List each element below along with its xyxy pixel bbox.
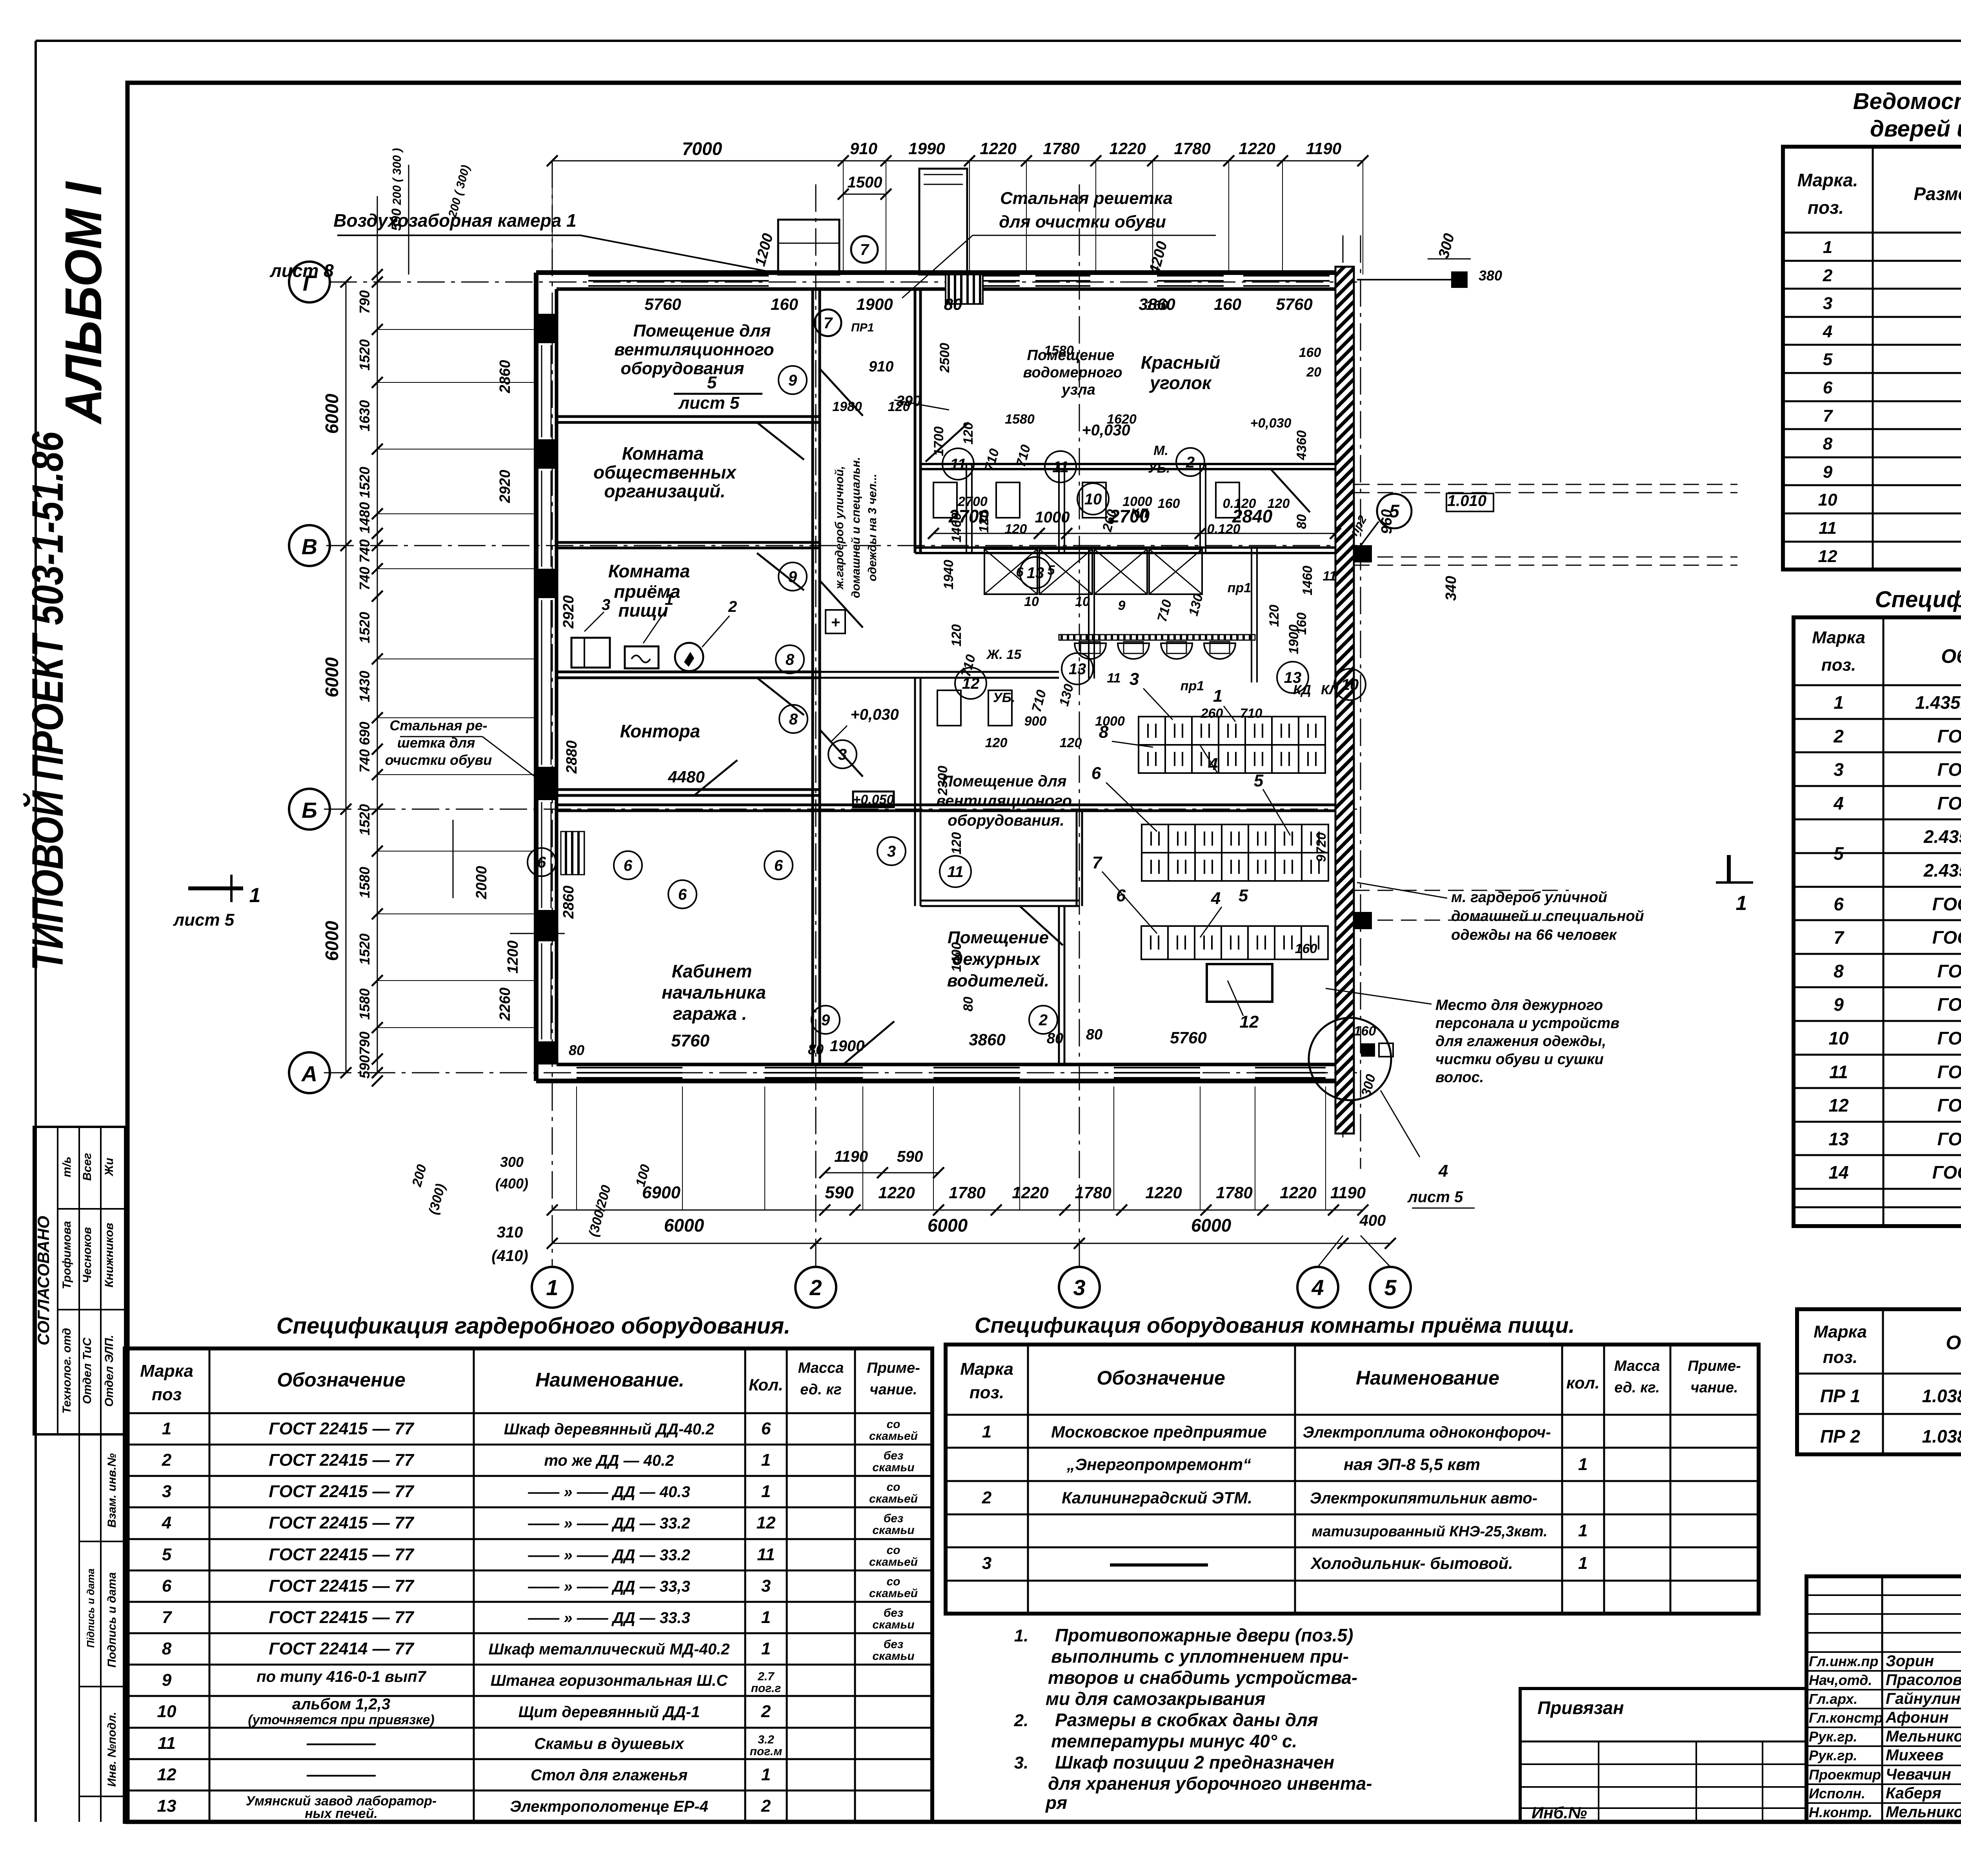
svg-text:ж.гардероб уличной,: ж.гардероб уличной, — [833, 466, 846, 590]
svg-text:790: 790 — [357, 290, 373, 314]
svg-text:+0,030: +0,030 — [850, 706, 899, 723]
svg-text:1220: 1220 — [1145, 1183, 1182, 1202]
svg-text:—— » —— ДД — 33.2: —— » —— ДД — 33.2 — [528, 1515, 690, 1532]
svg-text:+0,050: +0,050 — [853, 792, 894, 807]
svg-text:6: 6 — [761, 1419, 771, 1438]
svg-text:1: 1 — [249, 884, 261, 907]
svg-text:дверей и ворот: дверей и ворот — [1870, 116, 1961, 142]
svg-text:1940: 1940 — [941, 560, 956, 590]
svg-text:1700: 1700 — [931, 426, 946, 456]
svg-text:ГОСТ 6629 — 74: ГОСТ 6629 — 74 — [1937, 961, 1961, 981]
svg-text:6000: 6000 — [664, 1215, 704, 1236]
svg-text:Шкаф деревянный ДД-40.2: Шкаф деревянный ДД-40.2 — [504, 1421, 714, 1438]
svg-text:без: без — [884, 1449, 904, 1462]
svg-text:—— » —— ДД — 33.2: —— » —— ДД — 33.2 — [528, 1547, 690, 1564]
svg-text:1: 1 — [1736, 892, 1747, 915]
svg-text:со: со — [886, 1481, 900, 1494]
svg-text:5: 5 — [1384, 1275, 1397, 1300]
svg-text:2880: 2880 — [564, 741, 580, 774]
svg-text:910: 910 — [850, 139, 877, 158]
svg-text:80: 80 — [961, 997, 976, 1012]
svg-text:Отдел ТиС: Отдел ТиС — [81, 1337, 94, 1404]
svg-text:Штанга горизонтальная Ш.С: Штанга горизонтальная Ш.С — [491, 1672, 728, 1689]
grid circle 5 — [1370, 1267, 1411, 1308]
svg-text:————: ———— — [306, 1765, 376, 1784]
svg-text:скамьи: скамьи — [872, 1461, 914, 1474]
svg-text:Шкаф металлический МД-40.2: Шкаф металлический МД-40.2 — [489, 1641, 730, 1658]
svg-text:13: 13 — [157, 1796, 176, 1816]
sheet outer border left line — [35, 41, 37, 1822]
svg-text:5: 5 — [1823, 350, 1833, 369]
svg-text:+0,030: +0,030 — [1250, 416, 1292, 431]
svg-text:+0,030: +0,030 — [1082, 422, 1130, 439]
axis A line — [324, 1072, 1357, 1074]
svg-text:2: 2 — [761, 1702, 771, 1721]
svg-text:9: 9 — [1834, 994, 1844, 1015]
svg-text:+: + — [831, 614, 840, 631]
svg-text:по типу 416-0-1 вып7: по типу 416-0-1 вып7 — [256, 1668, 427, 1685]
svg-text:Электрополотенце ЕР-4: Электрополотенце ЕР-4 — [510, 1798, 708, 1815]
axis 1 line — [552, 161, 553, 1267]
svg-text:7: 7 — [1092, 853, 1103, 872]
wall between priem pischi and kontora — [557, 671, 820, 673]
position circle 13 — [1277, 662, 1308, 693]
svg-text:3: 3 — [1834, 759, 1844, 780]
svg-text:10: 10 — [1084, 491, 1102, 508]
position circle 10 — [1334, 669, 1366, 700]
svg-text:ПР 1: ПР 1 — [1820, 1386, 1860, 1406]
svg-text:3: 3 — [887, 843, 896, 860]
svg-text:11: 11 — [1819, 519, 1837, 538]
svg-text:Ж. 15: Ж. 15 — [986, 647, 1022, 662]
svg-text:Спецификация гардеробного об: Спецификация гардеробного оборудования. — [277, 1313, 791, 1339]
position circle 8 — [779, 705, 808, 733]
svg-text:чание.: чание. — [870, 1381, 917, 1398]
svg-text:пр1: пр1 — [1181, 679, 1204, 693]
svg-text:Размер проёма в кладке.: Размер проёма в кладке. — [1914, 184, 1961, 204]
table: specifikaciya peremychek — [1797, 1309, 1961, 1454]
svg-text:ми для самозакрывания: ми для самозакрывания — [1046, 1689, 1266, 1709]
svg-text:Спецификация оборудования ко: Спецификация оборудования комнаты приёма… — [975, 1313, 1575, 1337]
svg-text:20: 20 — [1306, 365, 1321, 380]
svg-text:1190: 1190 — [834, 1148, 868, 1165]
svg-text:лист 5: лист 5 — [173, 910, 235, 930]
svg-text:2: 2 — [728, 598, 737, 615]
svg-text:1: 1 — [1578, 1455, 1588, 1474]
left dim vertical line 1 (6000s) — [346, 282, 347, 1073]
svg-text:3: 3 — [162, 1482, 171, 1501]
svg-text:2: 2 — [809, 1275, 822, 1300]
svg-text:8: 8 — [1834, 961, 1844, 981]
axis 3 line — [1079, 184, 1080, 1267]
svg-text:80: 80 — [1294, 514, 1309, 529]
svg-text:6000: 6000 — [322, 393, 342, 434]
svg-text:3: 3 — [838, 746, 847, 763]
svg-text:поз.: поз. — [1821, 655, 1856, 675]
svg-text:ПР 2: ПР 2 — [1820, 1426, 1861, 1447]
svg-text:4: 4 — [1311, 1275, 1324, 1300]
svg-text:организаций.: организаций. — [604, 481, 725, 501]
svg-text:1580: 1580 — [1044, 343, 1074, 358]
svg-text:80: 80 — [944, 295, 962, 313]
title block (main stamp) — [1806, 1576, 1961, 1822]
svg-text:волос.: волос. — [1435, 1069, 1484, 1086]
svg-text:ПР1: ПР1 — [851, 321, 874, 334]
svg-text:3.2: 3.2 — [758, 1733, 774, 1746]
position circle 9 — [811, 1006, 840, 1034]
svg-text:Чевачин: Чевачин — [1886, 1766, 1951, 1783]
svg-text:ГОСТ 22415 — 77: ГОСТ 22415 — 77 — [269, 1482, 415, 1501]
svg-text:6: 6 — [1823, 378, 1833, 397]
svg-text:(уточняется при привязке): (уточняется при привязке) — [248, 1712, 435, 1727]
svg-text:выполнить с уплотнением при-: выполнить с уплотнением при- — [1051, 1646, 1349, 1667]
svg-text:2.: 2. — [1014, 1711, 1029, 1730]
svg-text:12: 12 — [157, 1765, 176, 1784]
svg-text:4480: 4480 — [668, 768, 704, 786]
svg-text:380: 380 — [1479, 267, 1502, 284]
grille symbol left wall — [561, 832, 584, 875]
svg-text:12: 12 — [1818, 547, 1837, 566]
svg-text:Зорин: Зорин — [1886, 1652, 1934, 1670]
svg-text:Спецификация заполнения проё: Спецификация заполнения проёмов дверей и… — [1875, 587, 1961, 612]
svg-text:Обозначение: Обозначение — [1946, 1332, 1961, 1354]
svg-text:1: 1 — [1834, 692, 1844, 713]
svg-text:6: 6 — [1091, 764, 1101, 783]
svg-text:1220: 1220 — [1012, 1183, 1048, 1202]
svg-text:1: 1 — [761, 1765, 771, 1784]
vent room 2 walls — [920, 900, 1079, 902]
svg-text:1990: 1990 — [908, 139, 945, 158]
svg-text:120: 120 — [1267, 605, 1282, 627]
svg-text:590: 590 — [825, 1183, 854, 1202]
position circle 6 — [668, 880, 697, 908]
svg-text:9: 9 — [788, 372, 797, 389]
svg-text:8: 8 — [162, 1639, 172, 1658]
svg-text:общественных: общественных — [593, 462, 737, 482]
svg-text:ная ЭП-8 5,5 квт: ная ЭП-8 5,5 квт — [1344, 1455, 1480, 1474]
position circle 8 — [776, 645, 804, 673]
grid circle 1 — [532, 1267, 573, 1308]
svg-text:домашней и специальн.: домашней и специальн. — [850, 457, 862, 598]
svg-text:Калининградский ЭТМ.: Калининградский ЭТМ. — [1062, 1488, 1252, 1507]
svg-text:ТИПОВОЙ ПРОЕКТ 503-1-51.86: ТИПОВОЙ ПРОЕКТ 503-1-51.86 — [23, 431, 72, 971]
svg-text:без: без — [884, 1638, 904, 1651]
svg-text:Электрокипятильник авто-: Электрокипятильник авто- — [1310, 1490, 1537, 1507]
svg-text:оборудования: оборудования — [620, 359, 744, 378]
svg-text:8: 8 — [786, 651, 795, 668]
svg-text:1.038.1 - 1 вып. 1: 1.038.1 - 1 вып. 1 — [1922, 1386, 1961, 1406]
svg-text:3.: 3. — [1014, 1753, 1029, 1772]
svg-text:8: 8 — [789, 711, 798, 728]
svg-text:для очистки обуви: для очистки обуви — [999, 212, 1166, 231]
leader to circle 4 — [1318, 1236, 1343, 1267]
svg-text:1.010: 1.010 — [1447, 492, 1486, 509]
position circle 12 — [955, 668, 986, 699]
umyvalnik wall — [1059, 635, 1255, 640]
svg-text:1000: 1000 — [1095, 714, 1125, 729]
svg-text:Масса: Масса — [1614, 1358, 1660, 1374]
position circle 13 — [1062, 653, 1093, 684]
svg-text:Підпись и дата: Підпись и дата — [85, 1568, 96, 1648]
grid circle В — [289, 525, 330, 566]
axis G line — [329, 282, 1357, 283]
svg-text:ГОСТ 22415 — 77: ГОСТ 22415 — 77 — [269, 1576, 415, 1596]
svg-text:—— » —— ДД — 33,3: —— » —— ДД — 33,3 — [528, 1578, 690, 1595]
svg-text:590: 590 — [357, 1055, 373, 1079]
svg-text:5: 5 — [707, 373, 717, 392]
svg-text:340: 340 — [1443, 576, 1459, 600]
kitchen furniture item 1 (plate) — [625, 646, 659, 668]
toilet cells small fixtures — [933, 482, 957, 518]
svg-text:чание.: чание. — [1690, 1379, 1738, 1396]
svg-text:1630: 1630 — [357, 400, 373, 431]
svg-text:160: 160 — [1158, 496, 1180, 511]
svg-text:Стальная решетка: Стальная решетка — [1000, 189, 1173, 208]
svg-text:1.435.2 — 20 вып. 0,1: 1.435.2 — 20 вып. 0,1 — [1915, 692, 1961, 713]
svg-text:1780: 1780 — [1174, 139, 1210, 158]
svg-text:ГОСТ 6629 — 74: ГОСТ 6629 — 74 — [1937, 1129, 1961, 1149]
svg-text:3: 3 — [1130, 670, 1139, 689]
svg-text:ед. кг: ед. кг — [800, 1381, 842, 1398]
svg-text:Противопожарные двери (поз.5): Противопожарные двери (поз.5) — [1055, 1625, 1353, 1645]
position circle 6 — [614, 851, 642, 879]
svg-text:Московское предприятие: Московское предприятие — [1051, 1423, 1267, 1441]
svg-text:для хранения уборочного инве: для хранения уборочного инвента- — [1048, 1773, 1372, 1794]
svg-text:7: 7 — [824, 315, 833, 332]
1500 dim — [843, 194, 886, 195]
svg-text:АЛЬБОМ I: АЛЬБОМ I — [55, 181, 112, 425]
svg-text:СОГЛАСОВАНО: СОГЛАСОВАНО — [34, 1216, 53, 1345]
svg-text:Щит деревянный ДД-1: Щит деревянный ДД-1 — [518, 1703, 700, 1721]
svg-text:ГОСТ 22415 — 77: ГОСТ 22415 — 77 — [269, 1513, 415, 1532]
svg-text:5: 5 — [1254, 771, 1264, 790]
position circle 11 — [1045, 451, 1076, 482]
svg-text:1190: 1190 — [1330, 1183, 1366, 1202]
svg-text:6000: 6000 — [322, 921, 342, 961]
wall x2752 axis3 lower — [1076, 811, 1078, 906]
svg-text:одежды на 66 человек: одежды на 66 человек — [1451, 927, 1617, 943]
svg-text:1780: 1780 — [1075, 1183, 1111, 1202]
svg-text:2000: 2000 — [473, 866, 490, 900]
section mark 1 right — [1727, 855, 1731, 883]
sheet outer border top line — [36, 40, 1961, 42]
svg-text:1580: 1580 — [357, 867, 373, 898]
grid circle А — [289, 1052, 330, 1093]
svg-text:2700: 2700 — [1109, 506, 1150, 526]
svg-text:со: со — [886, 1575, 900, 1588]
svg-text:11: 11 — [950, 456, 966, 473]
svg-text:Чесноков: Чесноков — [81, 1227, 94, 1283]
svg-text:1: 1 — [1578, 1554, 1588, 1573]
svg-text:710: 710 — [1240, 706, 1262, 721]
svg-text:Каберя: Каберя — [1886, 1785, 1941, 1802]
svg-text:Жи: Жи — [103, 1158, 116, 1177]
svg-text:80: 80 — [808, 1041, 824, 1057]
grid circle 3 — [1059, 1267, 1100, 1308]
svg-text:1430: 1430 — [357, 671, 373, 702]
svg-text:13: 13 — [1069, 661, 1086, 678]
position circle 13 — [1020, 557, 1051, 588]
svg-text:1220: 1220 — [1280, 1183, 1316, 1202]
svg-text:1980: 1980 — [832, 399, 862, 414]
table: specifikaciya zapolneniya proemov — [1794, 617, 1961, 1226]
svg-text:Марка.: Марка. — [1797, 170, 1858, 190]
svg-text:Контора: Контора — [620, 721, 700, 741]
svg-text:120: 120 — [949, 624, 964, 647]
locker bank 3 — [1141, 926, 1328, 959]
svg-text:В: В — [302, 534, 317, 559]
svg-text:3: 3 — [602, 596, 610, 613]
svg-text:ГОСТ 6629 — 74: ГОСТ 6629 — 74 — [1937, 726, 1961, 746]
svg-text:Скамьи в душевых: Скамьи в душевых — [534, 1735, 684, 1752]
svg-text:1400: 1400 — [949, 942, 964, 972]
svg-text:3860: 3860 — [969, 1030, 1005, 1049]
svg-text:9: 9 — [821, 1012, 830, 1029]
svg-text:1: 1 — [1823, 238, 1832, 257]
svg-text:9: 9 — [1118, 598, 1126, 613]
svg-text:310: 310 — [497, 1224, 523, 1241]
svg-text:узла: узла — [1061, 382, 1095, 398]
kitchen furniture item 2 (boiler) — [675, 643, 703, 671]
svg-text:Взам. инв.№: Взам. инв.№ — [106, 1453, 118, 1528]
position circle 9 — [779, 562, 807, 591]
svg-text:пищи: пищи — [618, 600, 668, 620]
svg-text:поз.: поз. — [1808, 197, 1844, 218]
svg-text:м. гардероб уличной: м. гардероб уличной — [1451, 889, 1607, 906]
svg-text:4: 4 — [1438, 1161, 1448, 1181]
elevation box 0.050 — [853, 792, 894, 807]
svg-text:12: 12 — [1240, 1012, 1259, 1032]
leader 4 list 5 — [1381, 1090, 1420, 1157]
svg-text:водомерного: водомерного — [1023, 364, 1122, 381]
position circle 6 — [528, 848, 556, 876]
svg-text:(410): (410) — [491, 1247, 528, 1265]
svg-text:7: 7 — [1823, 406, 1834, 426]
svg-text:3: 3 — [1073, 1275, 1085, 1300]
svg-text:6: 6 — [1834, 894, 1844, 914]
1190/590 small dims — [825, 1172, 939, 1174]
svg-text:ГОСТ 6629 — 74: ГОСТ 6629 — 74 — [1937, 994, 1961, 1015]
svg-text:УБ.: УБ. — [1148, 461, 1170, 476]
svg-text:1: 1 — [761, 1482, 771, 1501]
svg-text:Марка: Марка — [960, 1359, 1013, 1379]
svg-text:скамьи: скамьи — [872, 1650, 914, 1663]
svg-text:домашней и специальной: домашней и специальной — [1451, 908, 1644, 924]
svg-text:1480: 1480 — [357, 502, 373, 533]
svg-text:6: 6 — [162, 1576, 172, 1596]
svg-text:1580: 1580 — [1005, 412, 1035, 427]
svg-text:2: 2 — [1039, 1012, 1048, 1029]
svg-text:2.435 — 6 — вып. 1: 2.435 — 6 — вып. 1 — [1923, 826, 1961, 847]
svg-text:температуры минус 40° с.: температуры минус 40° с. — [1051, 1731, 1297, 1751]
svg-text:12: 12 — [962, 675, 980, 692]
svg-text:120: 120 — [961, 422, 976, 445]
svg-text:Книжников: Книжников — [103, 1223, 116, 1287]
svg-text:3: 3 — [982, 1554, 991, 1573]
svg-text:160: 160 — [1354, 1024, 1376, 1039]
svg-text:4360: 4360 — [1294, 430, 1309, 460]
svg-text:2: 2 — [982, 1488, 992, 1507]
svg-text:4: 4 — [1823, 322, 1832, 341]
svg-text:740: 740 — [357, 539, 373, 563]
svg-text:ГОСТ 22414 — 77: ГОСТ 22414 — 77 — [269, 1639, 415, 1658]
hatched wall right (arbolit) — [1335, 267, 1354, 1134]
svg-text:120: 120 — [1005, 522, 1027, 537]
svg-text:690: 690 — [357, 722, 373, 745]
svg-text:пог.г: пог.г — [751, 1682, 781, 1695]
vent chamber protrusion — [778, 220, 839, 275]
svg-text:творов и снабдить устройства: творов и снабдить устройства- — [1048, 1667, 1357, 1688]
svg-text:1220: 1220 — [1109, 139, 1146, 158]
svg-text:120: 120 — [1060, 735, 1082, 750]
svg-text:М.: М. — [1153, 443, 1168, 458]
corridor wall vertical x2090 — [811, 289, 814, 1064]
svg-text:Гайнулин: Гайнулин — [1886, 1690, 1961, 1707]
wall x2700 lower — [1058, 906, 1060, 1064]
axis 4 line — [1343, 235, 1344, 1137]
svg-text:—— » —— ДД — 33.3: —— » —— ДД — 33.3 — [528, 1609, 690, 1627]
svg-text:лист 5: лист 5 — [678, 393, 740, 413]
position circle 10 — [1077, 483, 1109, 515]
svg-text:120: 120 — [949, 832, 964, 855]
svg-text:6000: 6000 — [1191, 1215, 1232, 1236]
grille hatch near tambour — [946, 275, 983, 304]
svg-text:Помещение для: Помещение для — [942, 773, 1067, 790]
svg-text:ГОСТ 22415 — 77: ГОСТ 22415 — 77 — [269, 1450, 415, 1470]
svg-text:1: 1 — [162, 1419, 171, 1438]
svg-text:6000: 6000 — [322, 657, 342, 697]
position circle 11 — [940, 856, 971, 887]
svg-text:альбом 1,2,3: альбом 1,2,3 — [292, 1696, 390, 1713]
svg-text:6: 6 — [678, 886, 687, 903]
svg-text:6000: 6000 — [928, 1215, 968, 1236]
position circle 11 — [942, 448, 974, 480]
svg-text:80: 80 — [569, 1042, 584, 1058]
svg-text:Мельников: Мельников — [1886, 1803, 1961, 1821]
svg-text:Проектир: Проектир — [1809, 1767, 1881, 1783]
svg-text:Мельников: Мельников — [1886, 1728, 1961, 1745]
svg-text:пог.м: пог.м — [750, 1745, 782, 1758]
svg-text:2: 2 — [1823, 266, 1833, 285]
svg-text:Электроплита одноконфороч-: Электроплита одноконфороч- — [1303, 1424, 1551, 1441]
svg-text:Наименование.: Наименование. — [535, 1369, 684, 1391]
svg-text:2700: 2700 — [948, 506, 989, 526]
svg-text:Обозначение.: Обозначение. — [1941, 645, 1961, 667]
svg-text:11: 11 — [158, 1734, 176, 1753]
svg-text:ед. кг.: ед. кг. — [1614, 1379, 1660, 1396]
leader lines banks — [1143, 688, 1173, 720]
svg-text:3: 3 — [1823, 294, 1832, 313]
svg-text:2500: 2500 — [937, 343, 952, 373]
svg-text:Марка: Марка — [140, 1361, 193, 1381]
svg-text:УБ.: УБ. — [993, 690, 1015, 705]
svg-text:Размеры в скобках даны для: Размеры в скобках даны для — [1055, 1710, 1318, 1730]
svg-text:14: 14 — [1828, 1162, 1848, 1183]
svg-text:400: 400 — [1359, 1212, 1386, 1229]
svg-text:7: 7 — [1834, 927, 1845, 948]
svg-text:13: 13 — [1027, 564, 1044, 582]
svg-text:Приме-: Приме- — [1688, 1358, 1741, 1374]
wall radiator mark — [826, 610, 845, 633]
svg-text:Нач,отд.: Нач,отд. — [1809, 1672, 1872, 1688]
svg-text:со: со — [886, 1544, 900, 1557]
svg-text:ГОСТ 6629 — 74: ГОСТ 6629 — 74 — [1937, 1095, 1961, 1115]
svg-text:11: 11 — [757, 1545, 775, 1564]
shower X boxes — [984, 549, 1037, 594]
svg-text:1200: 1200 — [505, 941, 521, 974]
svg-text:9720: 9720 — [1314, 832, 1329, 862]
svg-text:900: 900 — [1024, 714, 1047, 729]
